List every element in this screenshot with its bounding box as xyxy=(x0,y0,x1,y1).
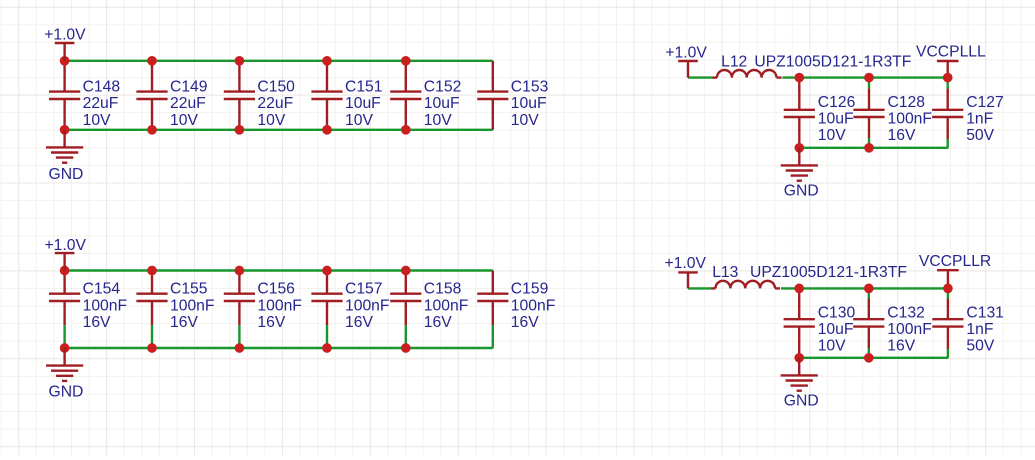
svg-text:22uF: 22uF xyxy=(257,95,293,112)
svg-text:UPZ1005D121-1R3TF: UPZ1005D121-1R3TF xyxy=(750,264,907,281)
svg-text:16V: 16V xyxy=(887,338,915,355)
svg-text:GND: GND xyxy=(784,182,819,199)
svg-text:+1.0V: +1.0V xyxy=(665,255,707,272)
svg-text:C128: C128 xyxy=(888,94,926,111)
svg-text:100nF: 100nF xyxy=(345,297,389,314)
svg-text:L13: L13 xyxy=(712,264,738,281)
svg-text:10uF: 10uF xyxy=(424,95,460,112)
svg-text:100nF: 100nF xyxy=(888,111,932,128)
svg-text:GND: GND xyxy=(49,166,84,183)
svg-text:10uF: 10uF xyxy=(511,95,547,112)
svg-text:C156: C156 xyxy=(257,281,295,298)
svg-text:50V: 50V xyxy=(966,338,994,355)
svg-text:GND: GND xyxy=(784,392,819,409)
svg-text:100nF: 100nF xyxy=(83,297,127,314)
svg-text:16V: 16V xyxy=(257,314,285,331)
svg-text:100nF: 100nF xyxy=(511,297,555,314)
svg-text:10V: 10V xyxy=(170,112,198,129)
svg-text:C126: C126 xyxy=(818,94,856,111)
svg-text:C154: C154 xyxy=(83,281,121,298)
svg-text:GND: GND xyxy=(49,383,84,400)
svg-text:C159: C159 xyxy=(511,281,549,298)
svg-text:C150: C150 xyxy=(257,79,295,96)
svg-text:C149: C149 xyxy=(170,79,208,96)
svg-text:C130: C130 xyxy=(818,305,856,322)
svg-text:22uF: 22uF xyxy=(83,95,119,112)
svg-text:10V: 10V xyxy=(818,127,846,144)
svg-text:16V: 16V xyxy=(424,314,452,331)
svg-text:C151: C151 xyxy=(345,79,383,96)
svg-text:10V: 10V xyxy=(83,112,111,129)
svg-text:C148: C148 xyxy=(83,79,121,96)
svg-text:16V: 16V xyxy=(345,314,373,331)
svg-text:100nF: 100nF xyxy=(424,297,468,314)
svg-text:22uF: 22uF xyxy=(170,95,206,112)
svg-text:C153: C153 xyxy=(511,79,549,96)
svg-text:C131: C131 xyxy=(966,305,1004,322)
svg-text:VCCPLLL: VCCPLLL xyxy=(916,44,986,61)
svg-text:+1.0V: +1.0V xyxy=(44,27,86,44)
svg-text:C127: C127 xyxy=(966,94,1004,111)
svg-text:C152: C152 xyxy=(424,79,462,96)
svg-text:10uF: 10uF xyxy=(818,111,854,128)
svg-text:UPZ1005D121-1R3TF: UPZ1005D121-1R3TF xyxy=(754,53,911,70)
svg-text:10V: 10V xyxy=(818,338,846,355)
svg-text:16V: 16V xyxy=(888,127,916,144)
svg-text:16V: 16V xyxy=(170,314,198,331)
svg-text:10V: 10V xyxy=(345,112,373,129)
svg-text:50V: 50V xyxy=(966,127,994,144)
svg-text:100nF: 100nF xyxy=(887,321,931,338)
svg-text:10V: 10V xyxy=(257,112,285,129)
svg-text:+1.0V: +1.0V xyxy=(45,237,87,254)
svg-text:+1.0V: +1.0V xyxy=(665,44,707,61)
svg-text:100nF: 100nF xyxy=(257,297,301,314)
svg-text:C155: C155 xyxy=(170,281,208,298)
svg-text:1nF: 1nF xyxy=(966,321,993,338)
svg-text:10uF: 10uF xyxy=(818,321,854,338)
svg-text:C158: C158 xyxy=(424,281,462,298)
svg-text:L12: L12 xyxy=(721,53,747,70)
svg-text:VCCPLLR: VCCPLLR xyxy=(919,253,991,270)
svg-text:100nF: 100nF xyxy=(170,297,214,314)
svg-text:C157: C157 xyxy=(345,281,383,298)
svg-text:10uF: 10uF xyxy=(345,95,381,112)
svg-text:1nF: 1nF xyxy=(966,111,993,128)
svg-text:C132: C132 xyxy=(887,305,925,322)
svg-text:10V: 10V xyxy=(424,112,452,129)
svg-text:16V: 16V xyxy=(511,314,539,331)
svg-text:16V: 16V xyxy=(83,314,111,331)
svg-text:10V: 10V xyxy=(511,112,539,129)
